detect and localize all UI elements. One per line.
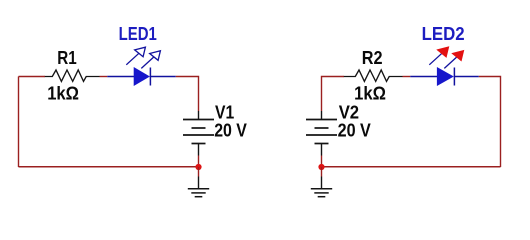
LED2 emission arrow 2 (filled red) [444,51,463,69]
resistor R2 [344,70,403,81]
ground GND1 [188,177,209,197]
wire: circuit 1 left vertical segment [18,77,20,168]
svg-text:1kΩ: 1kΩ [354,82,386,103]
svg-text:LED2: LED2 [422,23,465,44]
label V1 [215,101,234,122]
LED1 diode symbol [107,68,176,86]
wire: LED1 to top-right corner and down to V1 [176,77,199,112]
wire: circuit 2 battery top lead up and over to R2 [322,77,345,112]
junction dot circuit 1 [195,164,201,170]
wire: circuit 1 bottom horizontal segment [19,166,199,168]
label R2 [362,47,383,68]
wire: stub between R2 and LED2 [403,76,411,78]
LED1 emission arrow 1 (open blue) [126,47,145,65]
label LED1 [119,23,157,44]
label LED2 [422,23,465,44]
wire: LED2 to top-right corner and down right side [479,77,501,168]
ground GND2 [311,177,332,197]
value label 1kΩ (R2) [354,82,386,103]
svg-text:20 V: 20 V [214,120,247,141]
svg-text:R1: R1 [57,47,77,68]
battery V2 [306,111,337,156]
svg-text:R2: R2 [362,47,383,68]
wire: stub between R1 and LED1 [100,76,108,78]
value label 20 V (V1) [214,120,247,141]
wire: junction to ground 1 [198,167,200,177]
LED1 emission arrow 2 (open blue) [141,51,160,69]
svg-text:1kΩ: 1kΩ [47,83,79,104]
resistor R1 [45,70,100,81]
wire: V1 bottom lead to junction [198,156,200,168]
label R1 [57,47,77,68]
label V2 [339,101,359,122]
battery V1 [183,111,214,156]
value label 1kΩ (R1) [47,83,79,104]
wire: V2 bottom lead to junction [321,156,323,168]
LED2 emission arrow 1 (filled red) [429,47,448,65]
junction dot circuit 2 [318,164,324,170]
svg-text:LED1: LED1 [119,23,157,44]
value label 20 V (V2) [338,120,372,141]
wire: circuit 2 bottom horizontal segment [322,166,501,168]
svg-text:20 V: 20 V [338,120,372,141]
LED2 diode symbol [410,68,479,86]
wire: junction to ground 2 [321,167,323,177]
wire: circuit 1 top-left horizontal segment to R1 [19,76,46,78]
